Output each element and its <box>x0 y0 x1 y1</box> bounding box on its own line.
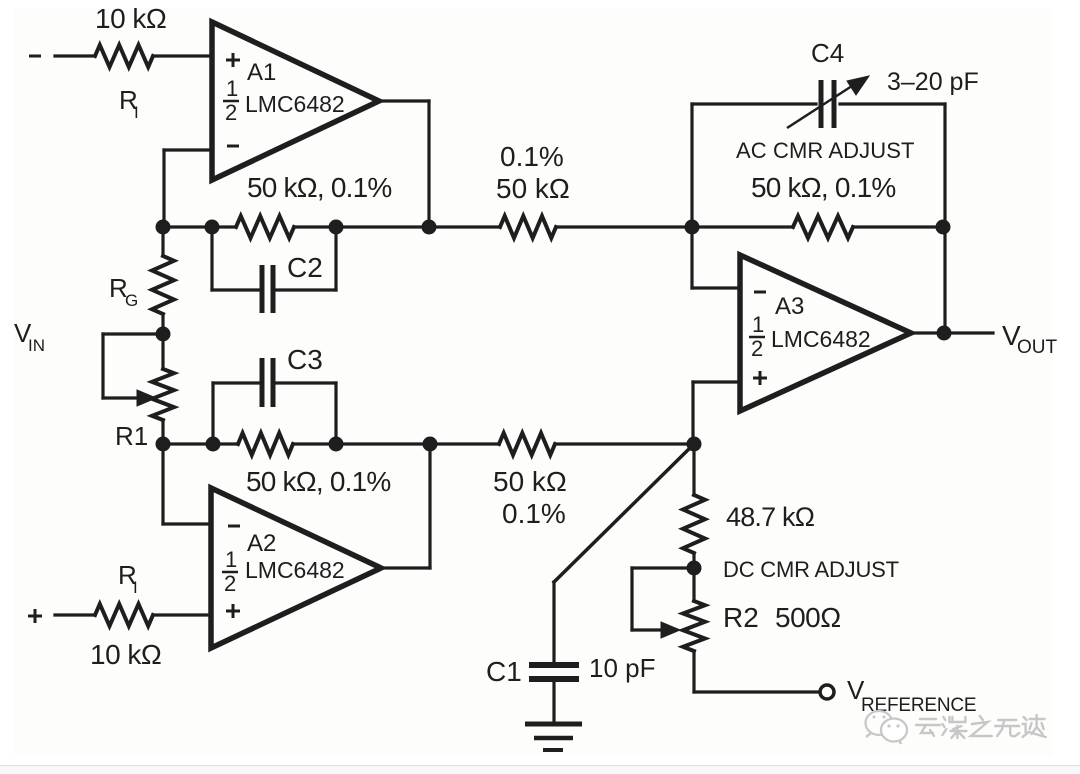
svg-text:C4: C4 <box>811 38 844 68</box>
svg-text:LMC6482: LMC6482 <box>245 557 345 583</box>
svg-text:50 kΩ: 50 kΩ <box>496 173 570 204</box>
svg-text:0.1%: 0.1% <box>500 141 564 172</box>
svg-text:I: I <box>134 103 139 122</box>
svg-text:OUT: OUT <box>1017 337 1058 358</box>
svg-text:C2: C2 <box>287 252 323 283</box>
svg-text:3–20 pF: 3–20 pF <box>887 68 979 96</box>
svg-text:500Ω: 500Ω <box>775 602 841 633</box>
svg-text:10 pF: 10 pF <box>589 653 656 683</box>
svg-text:LMC6482: LMC6482 <box>245 91 345 117</box>
svg-text:A3: A3 <box>775 293 804 320</box>
svg-text:50 kΩ: 50 kΩ <box>493 466 567 497</box>
svg-text:2: 2 <box>751 336 763 361</box>
svg-text:1: 1 <box>225 547 237 572</box>
svg-text:2: 2 <box>224 571 236 596</box>
svg-text:C3: C3 <box>287 344 323 375</box>
svg-text:LMC6482: LMC6482 <box>771 326 871 352</box>
svg-text:R1: R1 <box>115 421 148 451</box>
svg-text:A1: A1 <box>247 59 276 86</box>
svg-text:10 kΩ: 10 kΩ <box>95 3 166 34</box>
svg-text:G: G <box>125 291 138 310</box>
svg-text:50 kΩ, 0.1%: 50 kΩ, 0.1% <box>751 172 895 203</box>
svg-text:50 kΩ, 0.1%: 50 kΩ, 0.1% <box>247 172 391 203</box>
svg-text:2: 2 <box>225 100 237 125</box>
svg-text:10 kΩ: 10 kΩ <box>90 639 161 670</box>
svg-text:IN: IN <box>28 336 45 355</box>
svg-text:C1: C1 <box>486 656 522 687</box>
svg-text:R2: R2 <box>723 602 759 633</box>
svg-text:REFERENCE: REFERENCE <box>861 695 976 716</box>
svg-text:50 kΩ, 0.1%: 50 kΩ, 0.1% <box>246 466 390 497</box>
svg-text:48.7 kΩ: 48.7 kΩ <box>726 502 815 532</box>
svg-text:AC CMR ADJUST: AC CMR ADJUST <box>736 138 915 163</box>
svg-text:1: 1 <box>752 312 764 337</box>
svg-text:1: 1 <box>226 76 238 101</box>
svg-text:DC CMR ADJUST: DC CMR ADJUST <box>723 557 899 582</box>
svg-text:I: I <box>133 578 138 597</box>
svg-text:0.1%: 0.1% <box>502 498 566 529</box>
svg-text:A2: A2 <box>247 530 276 557</box>
